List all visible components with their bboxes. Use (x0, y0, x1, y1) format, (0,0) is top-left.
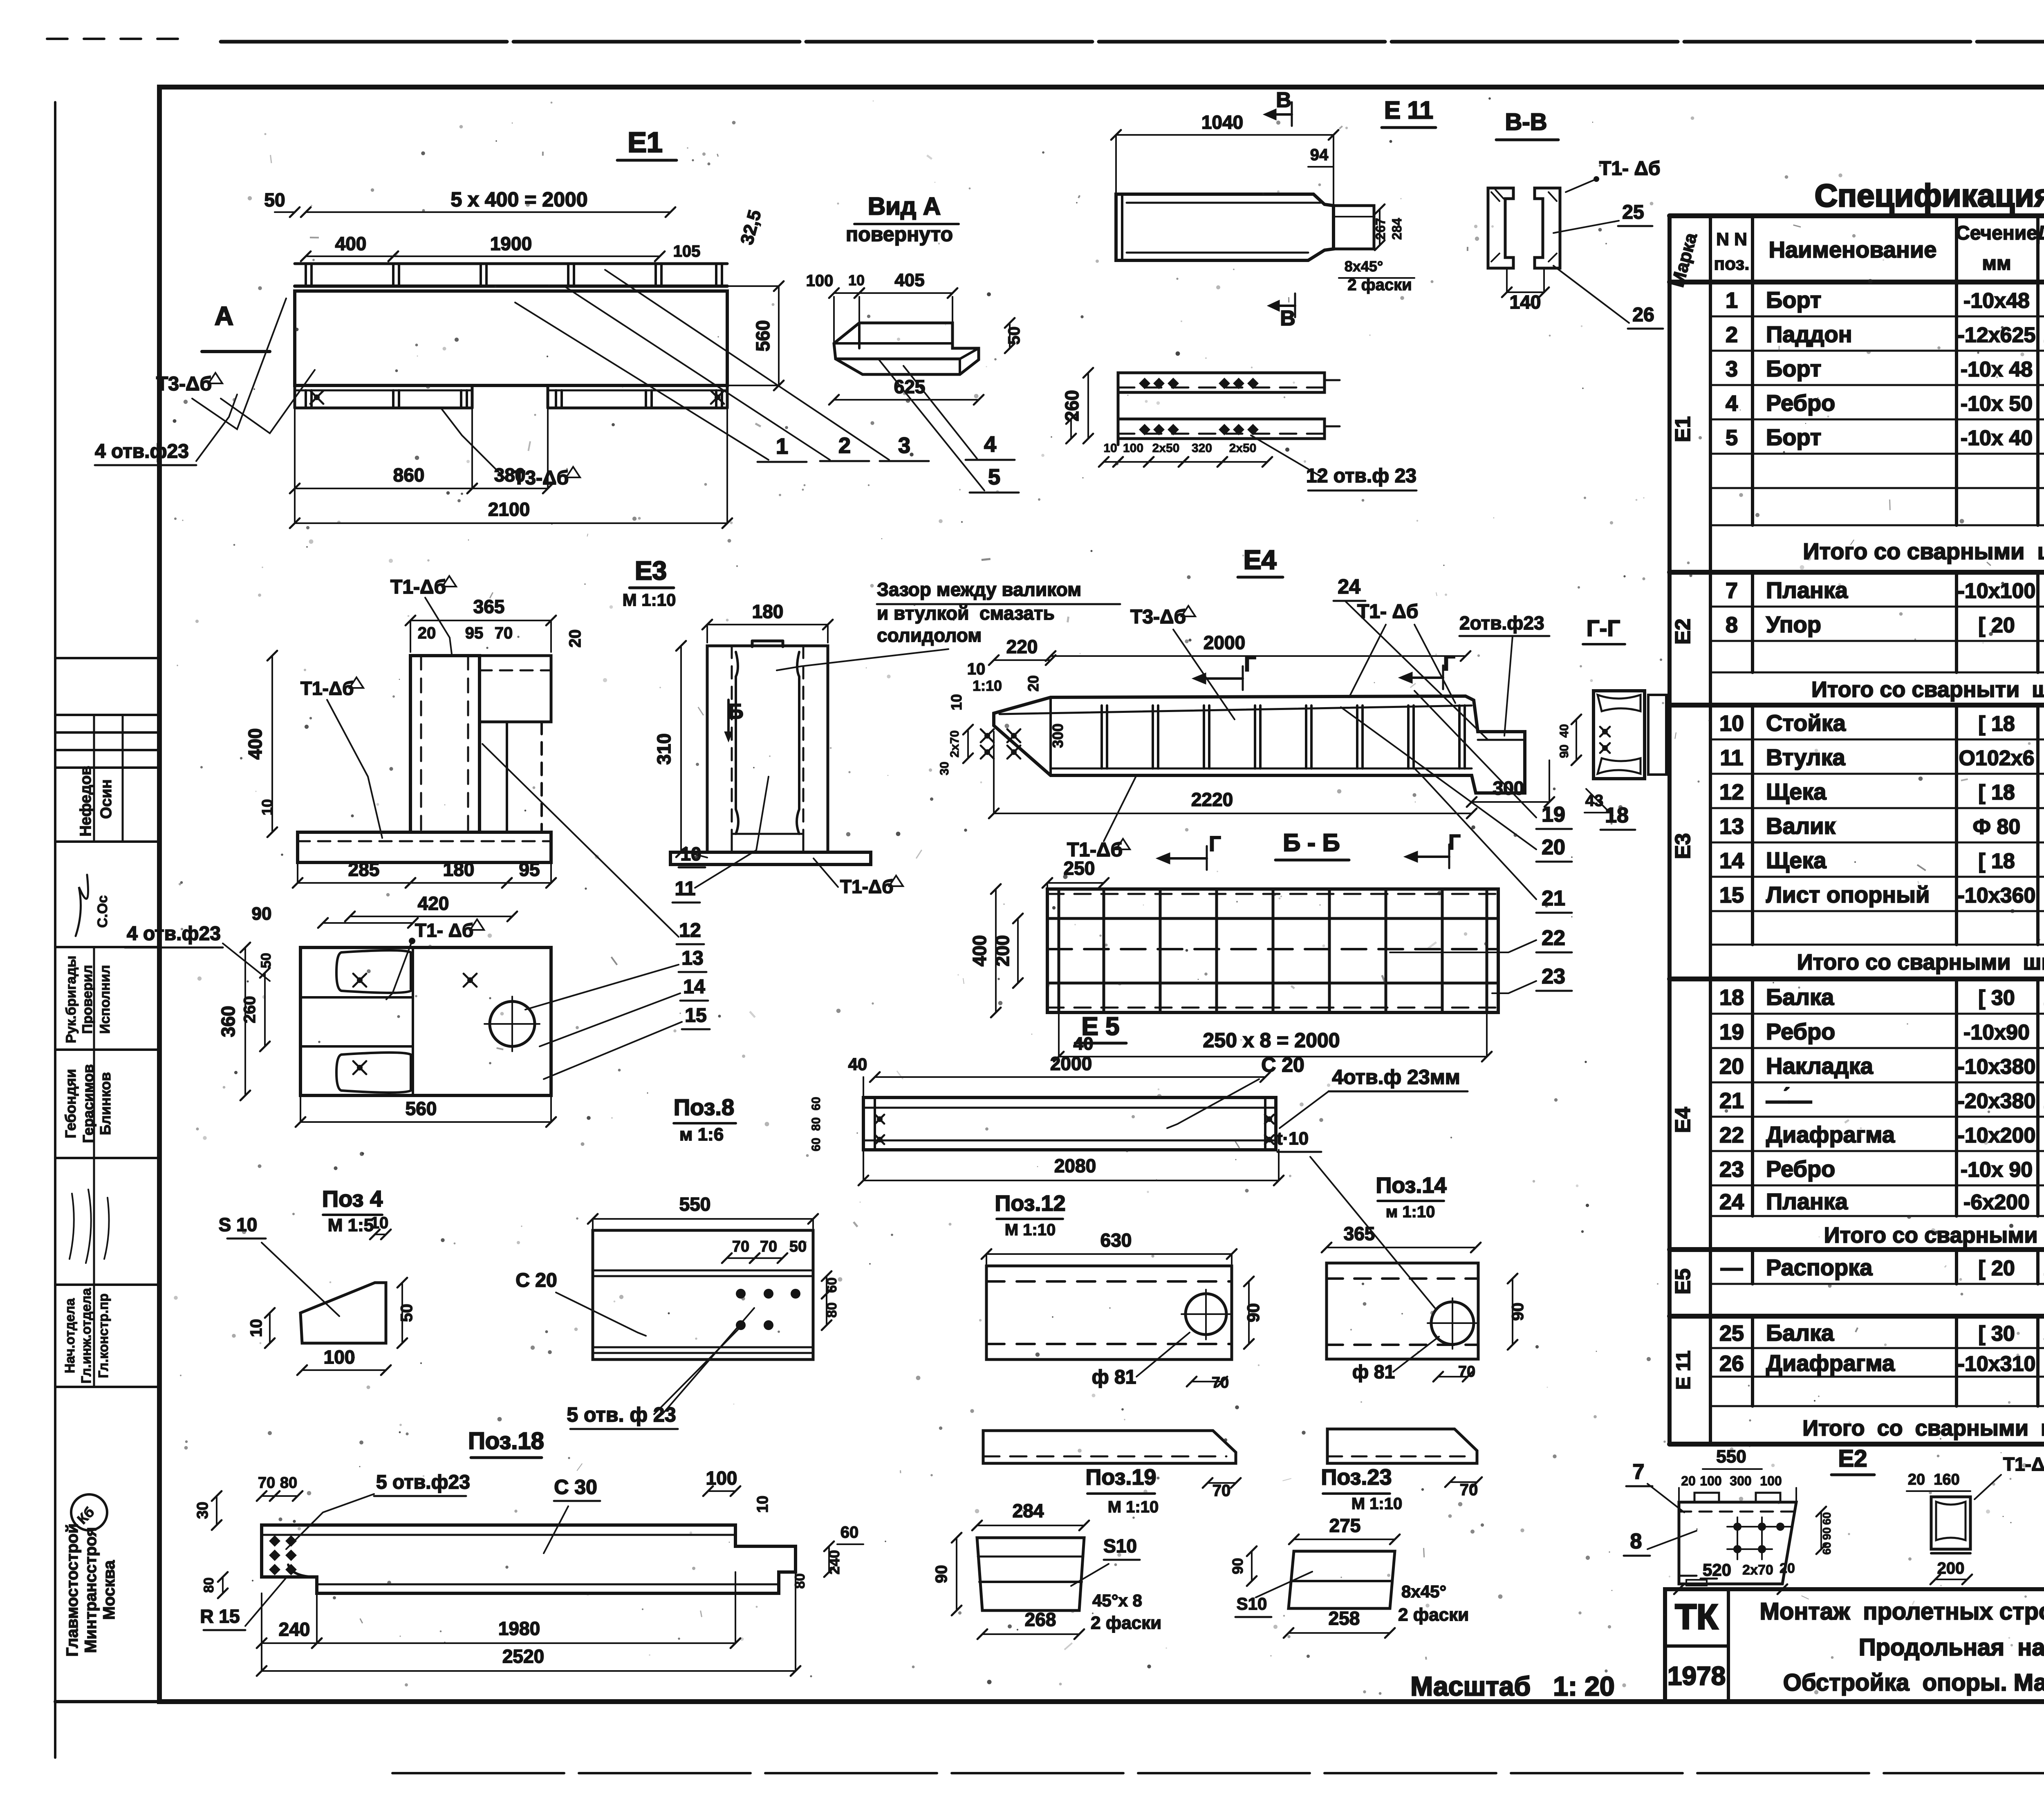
svg-text:60: 60 (1820, 1512, 1833, 1525)
E11 dimensions (1111, 88, 1414, 330)
svg-text:10: 10 (247, 1319, 265, 1337)
svg-text:43: 43 (1585, 792, 1604, 810)
section G-G drawing (1558, 691, 1666, 813)
weld label T1 E3 (390, 576, 456, 654)
svg-text:Лист опорный: Лист опорный (1766, 882, 1930, 907)
svg-text:2x50: 2x50 (1152, 441, 1180, 455)
svg-text:1900: 1900 (490, 233, 532, 254)
svg-text:365: 365 (1344, 1223, 1375, 1244)
svg-text:Е 11: Е 11 (1673, 1351, 1694, 1390)
svg-text:ф 81: ф 81 (1352, 1361, 1395, 1382)
part plate 560 with roller (300, 947, 551, 1095)
part view A sketch (834, 297, 979, 374)
weld label T1 E4 bottom (1067, 775, 1136, 861)
svg-text:7: 7 (1726, 578, 1738, 603)
svg-text:ТК: ТК (1675, 1597, 1718, 1637)
svg-text:284: 284 (1013, 1500, 1044, 1521)
svg-text:Диафрагма: Диафрагма (1766, 1350, 1895, 1376)
svg-text:5: 5 (1726, 426, 1738, 450)
stamp names 2 (62, 1064, 114, 1143)
svg-text:5 отв.ф23: 5 отв.ф23 (376, 1471, 470, 1493)
svg-text:10: 10 (967, 660, 986, 678)
svg-text:Е5: Е5 (1671, 1268, 1695, 1295)
svg-text:200: 200 (992, 935, 1013, 967)
svg-text:1040: 1040 (1201, 112, 1243, 133)
svg-text:21: 21 (1719, 1088, 1744, 1113)
svg-text:560: 560 (406, 1098, 437, 1119)
svg-text:Ф 80: Ф 80 (1973, 815, 2021, 839)
svg-text:Поз 4: Поз 4 (322, 1186, 383, 1212)
weld label T1 plate (386, 919, 484, 999)
svg-text:Зазор между валиком: Зазор между валиком (877, 579, 1081, 600)
svg-text:2отв.ф23: 2отв.ф23 (1459, 612, 1544, 634)
svg-text:100: 100 (806, 272, 834, 290)
svg-text:12: 12 (679, 920, 701, 941)
svg-text:50: 50 (1005, 327, 1023, 345)
svg-text:М 1:10: М 1:10 (1108, 1498, 1159, 1516)
part label E2 (1831, 1445, 1874, 1475)
E1 dimensions (264, 188, 784, 528)
svg-text:12: 12 (1719, 780, 1744, 804)
svg-text:2000: 2000 (1050, 1053, 1092, 1074)
svg-text:400: 400 (244, 728, 266, 760)
stamp org and logo (63, 1494, 118, 1657)
svg-text:Ребро: Ребро (1766, 1019, 1835, 1044)
svg-text:В: В (1280, 307, 1295, 330)
svg-text:Планка: Планка (1766, 577, 1848, 603)
svg-text:20: 20 (1780, 1561, 1795, 1576)
svg-text:100: 100 (706, 1467, 737, 1489)
svg-text:14: 14 (1719, 849, 1744, 873)
svg-text:40: 40 (848, 1055, 867, 1074)
spec rows E11 (1673, 1320, 2044, 1440)
svg-text:2220: 2220 (1191, 789, 1233, 810)
svg-text:-10x 40: -10x 40 (1961, 426, 2033, 450)
svg-text:Е 5: Е 5 (1081, 1012, 1119, 1041)
spec rows E1 (1671, 287, 2044, 564)
svg-text:12 отв.ф 23: 12 отв.ф 23 (1306, 465, 1416, 487)
svg-text:Наименование: Наименование (1769, 237, 1937, 262)
svg-text:-10x380: -10x380 (1958, 1055, 2036, 1079)
V-V labels (1502, 158, 1663, 329)
svg-text:Нефедов: Нефедов (77, 766, 94, 836)
svg-text:2x70: 2x70 (1742, 1562, 1773, 1578)
svg-text:Гебондяи: Гебондяи (62, 1069, 79, 1138)
svg-text:7: 7 (1633, 1460, 1645, 1484)
svg-text:Балка: Балка (1766, 984, 1834, 1010)
section label B-B grid (1275, 829, 1349, 860)
weld label T3 E4 (1130, 606, 1235, 719)
svg-text:-10x 50: -10x 50 (1961, 392, 2033, 416)
svg-text:40: 40 (1558, 724, 1571, 737)
svg-text:140: 140 (1510, 291, 1541, 313)
svg-text:Г: Г (1209, 832, 1221, 856)
Poz8 dimensions (588, 1194, 840, 1330)
svg-text:860: 860 (393, 464, 425, 486)
part label E11 (1382, 96, 1436, 128)
svg-text:300: 300 (1730, 1474, 1751, 1488)
svg-text:400: 400 (335, 233, 367, 254)
svg-text:1980: 1980 (498, 1618, 540, 1639)
svg-text:70: 70 (1212, 1374, 1229, 1391)
stamp signatures (76, 875, 110, 936)
svg-text:50: 50 (789, 1238, 807, 1255)
svg-text:поз.: поз. (1714, 254, 1750, 274)
svg-text:[ 18: [ 18 (1978, 712, 2015, 736)
svg-text:22: 22 (1719, 1123, 1744, 1147)
svg-text:Б: Б (728, 700, 743, 723)
svg-text:Щека: Щека (1766, 779, 1827, 804)
svg-text:-12x625: -12x625 (1958, 323, 2036, 347)
spacer (0, 0, 0, 0)
svg-text:Осин: Осин (98, 779, 115, 819)
spec table title (1815, 177, 2044, 213)
svg-text:625: 625 (894, 376, 926, 397)
svg-text:70: 70 (1460, 1481, 1478, 1499)
svg-text:Е4: Е4 (1244, 544, 1277, 575)
svg-text:20: 20 (1681, 1474, 1696, 1488)
svg-text:солидолом: солидолом (877, 625, 982, 646)
E5 dimensions (809, 1053, 1284, 1185)
B-B dimensions (969, 858, 1492, 1062)
part label E1 (617, 126, 677, 160)
part Poz19 trapezoid (977, 1538, 1084, 1610)
svg-text:Итого со сварныти швами:: Итого со сварныти швами: (1811, 677, 2044, 702)
svg-text:20: 20 (1025, 675, 1042, 692)
svg-text:60: 60 (824, 1277, 840, 1293)
E3 stojka dimensions (653, 601, 833, 857)
part Poz18 bar (262, 1525, 796, 1593)
svg-text:100: 100 (1700, 1474, 1721, 1488)
label Vid A (846, 193, 959, 246)
part label Poz14 (1376, 1173, 1447, 1221)
svg-text:80: 80 (201, 1577, 217, 1593)
part Poz12 plate (986, 1266, 1232, 1359)
svg-text:Проверил: Проверил (80, 965, 95, 1034)
svg-text:В-В: В-В (1505, 109, 1547, 135)
stamp signatures 2 (69, 1189, 109, 1263)
svg-text:15: 15 (1719, 883, 1744, 907)
svg-text:М 1:10: М 1:10 (1005, 1221, 1056, 1239)
blank bar item23 (1327, 1429, 1482, 1499)
svg-text:23: 23 (1542, 965, 1565, 988)
E2 upor dimensions (1674, 1447, 1833, 1594)
svg-text:и втулкой смазать: и втулкой смазать (877, 602, 1055, 624)
svg-text:Монтаж пролетных строений 45.: Монтаж пролетных строений 45.0и55.0м (1760, 1598, 2044, 1625)
svg-text:Ребро: Ребро (1766, 390, 1835, 416)
svg-text:Щека: Щека (1766, 847, 1827, 873)
svg-text:-10x 90: -10x 90 (1961, 1158, 2033, 1182)
part E1 bottom rib rows (295, 385, 727, 408)
svg-text:70: 70 (760, 1238, 777, 1255)
svg-text:повернуто: повернуто (846, 223, 953, 246)
label 4 holes f23mm (1280, 1066, 1468, 1128)
svg-text:Накладка: Накладка (1766, 1053, 1874, 1079)
svg-text:Гл.инж.отдела: Гл.инж.отдела (78, 1288, 94, 1384)
weld label T1 stojka (814, 858, 903, 897)
label C20 Poz8 (515, 1270, 646, 1336)
svg-text:18: 18 (1719, 985, 1744, 1010)
svg-text:275: 275 (1329, 1515, 1361, 1536)
svg-text:Балка: Балка (1766, 1320, 1834, 1346)
svg-text:30: 30 (938, 761, 951, 775)
svg-text:Упор: Упор (1766, 611, 1821, 637)
section mark B (724, 700, 744, 742)
svg-text:м 1:10: м 1:10 (1386, 1203, 1435, 1221)
svg-text:20: 20 (418, 624, 436, 642)
item callout 24 (1334, 575, 1488, 740)
part E3 support column (298, 656, 551, 862)
svg-text:Втулка: Втулка (1766, 744, 1846, 770)
svg-text:105: 105 (673, 242, 701, 260)
part E4 beam (981, 696, 1525, 793)
svg-text:Главмостострой: Главмостострой (63, 1523, 81, 1657)
stamp names Нефедов Осин (77, 766, 115, 836)
svg-text:2: 2 (838, 433, 851, 458)
svg-text:Нач.отдела: Нач.отдела (62, 1298, 77, 1373)
svg-text:Т3-Δб: Т3-Δб (1130, 606, 1186, 628)
svg-text:20: 20 (1908, 1471, 1925, 1488)
svg-text:М 1:10: М 1:10 (623, 590, 676, 609)
part E5 bar (863, 1097, 1276, 1150)
svg-text:-6x200: -6x200 (1963, 1191, 2030, 1214)
svg-text:Т1- Δб: Т1- Δб (1599, 158, 1660, 179)
svg-text:80: 80 (824, 1302, 840, 1318)
part E2 tube section (1907, 1471, 1972, 1584)
svg-text:250 x 8 = 2000: 250 x 8 = 2000 (1203, 1029, 1340, 1052)
svg-text:268: 268 (1025, 1609, 1056, 1630)
svg-text:24: 24 (1338, 575, 1360, 598)
svg-text:26: 26 (1632, 304, 1654, 326)
svg-text:2 фаски: 2 фаски (1398, 1605, 1469, 1625)
svg-text:2x70: 2x70 (948, 730, 961, 758)
svg-text:8: 8 (1726, 613, 1738, 637)
svg-text:Рук.бригады: Рук.бригады (63, 956, 79, 1043)
svg-text:2000: 2000 (1204, 632, 1245, 653)
part label E4 (1238, 544, 1283, 577)
svg-text:80: 80 (280, 1474, 297, 1492)
svg-text:10: 10 (754, 1496, 771, 1513)
svg-text:С 30: С 30 (554, 1476, 597, 1498)
svg-text:520: 520 (1703, 1560, 1731, 1579)
svg-text:1: 1 (1726, 288, 1738, 313)
svg-text:S 10: S 10 (219, 1214, 258, 1235)
stamp roles 2 (62, 1288, 111, 1384)
E4 dimensions (938, 632, 1554, 818)
svg-text:24: 24 (1719, 1190, 1744, 1214)
item callouts 7 8 (1624, 1460, 1697, 1556)
weld label T3-b left (156, 298, 315, 433)
scale note (1410, 1671, 1614, 1701)
svg-text:3: 3 (1726, 357, 1738, 381)
svg-text:Минтрансстроя: Минтрансстроя (82, 1527, 100, 1653)
svg-text:10: 10 (948, 694, 965, 710)
label 12 holes f23 (1251, 435, 1416, 490)
svg-text:80: 80 (792, 1573, 808, 1589)
svg-text:М 1:10: М 1:10 (1351, 1495, 1403, 1513)
svg-text:Поз.14: Поз.14 (1376, 1173, 1447, 1198)
svg-text:[ 30: [ 30 (1978, 986, 2015, 1010)
svg-text:Блинков: Блинков (97, 1072, 114, 1135)
svg-text:70: 70 (1458, 1363, 1475, 1380)
svg-text:Итого со сварными швами:: Итого со сварными швами: (1803, 538, 2044, 564)
spec table grid (1670, 216, 2044, 1444)
svg-text:50: 50 (398, 1304, 416, 1322)
part label Poz23 (1321, 1465, 1403, 1513)
weld label T1 E4 (1349, 601, 1455, 703)
svg-text:20: 20 (566, 629, 584, 648)
svg-text:94: 94 (1310, 146, 1329, 164)
svg-text:70: 70 (495, 624, 513, 642)
svg-text:С.Ос: С.Ос (95, 895, 110, 927)
svg-text:95: 95 (465, 624, 484, 642)
svg-text:М 1:5: М 1:5 (328, 1215, 374, 1235)
svg-text:550: 550 (679, 1194, 711, 1215)
svg-text:Г: Г (1443, 652, 1455, 675)
svg-text:Т1- Δб: Т1- Δб (415, 920, 473, 941)
label C20 E5 (1167, 1053, 1304, 1128)
svg-text:10: 10 (1719, 711, 1744, 736)
Poz19 dimensions (932, 1500, 1161, 1639)
svg-text:O102x6: O102x6 (1959, 746, 2034, 770)
svg-text:20: 20 (1542, 835, 1565, 859)
svg-text:50: 50 (264, 189, 285, 211)
part label Poz12 (995, 1191, 1066, 1239)
svg-text:С 20: С 20 (1261, 1053, 1304, 1076)
svg-text:18: 18 (1605, 804, 1629, 827)
svg-text:Е1: Е1 (628, 126, 663, 158)
svg-text:Герасимов: Герасимов (80, 1064, 96, 1143)
label 5 holes f23 Poz8 (567, 1308, 754, 1429)
svg-text:Спецификация металла: Спецификация металла (1815, 177, 2044, 213)
svg-text:11: 11 (675, 878, 696, 900)
svg-text:Г: Г (1244, 652, 1256, 676)
Poz12 dimensions (982, 1230, 1263, 1391)
svg-text:С 20: С 20 (515, 1270, 557, 1291)
svg-text:Е4: Е4 (1671, 1107, 1695, 1133)
plate 560 dimensions (217, 893, 556, 1127)
svg-text:N N: N N (1716, 229, 1747, 249)
svg-text:90: 90 (1244, 1303, 1263, 1322)
svg-text:8x45°: 8x45° (1401, 1582, 1446, 1601)
svg-text:Распорка: Распорка (1766, 1254, 1873, 1280)
svg-text:[ 20: [ 20 (1978, 614, 2015, 637)
part E1 top rib row (295, 264, 727, 291)
svg-text:-10x48: -10x48 (1963, 289, 2030, 313)
svg-text:4: 4 (984, 432, 996, 457)
spec rows E3 (1671, 710, 2044, 974)
svg-text:19: 19 (1719, 1020, 1744, 1044)
svg-text:630: 630 (1100, 1230, 1132, 1251)
svg-text:240: 240 (279, 1619, 310, 1640)
svg-text:Т1-Δб: Т1-Δб (840, 876, 893, 897)
svg-text:Планка: Планка (1766, 1189, 1848, 1214)
svg-text:Паддон: Паддон (1766, 321, 1852, 347)
section label V-V (1496, 109, 1558, 140)
svg-text:4 отв.ф23: 4 отв.ф23 (127, 923, 221, 945)
weld label T1 E3 base (300, 677, 382, 838)
item callout 18 (1586, 789, 1635, 830)
svg-text:—́—: —́— (1766, 1087, 1812, 1113)
svg-text:1: 1 (776, 434, 788, 459)
svg-text:250: 250 (1064, 858, 1095, 879)
blank bar item19 (983, 1431, 1241, 1500)
svg-text:60: 60 (840, 1523, 859, 1541)
svg-text:95: 95 (519, 859, 540, 880)
svg-text:Поз.12: Поз.12 (995, 1191, 1066, 1216)
svg-text:32,5: 32,5 (737, 208, 765, 247)
svg-text:22: 22 (1542, 926, 1565, 950)
svg-text:-20x380: -20x380 (1958, 1089, 2036, 1113)
svg-text:19: 19 (1542, 803, 1565, 826)
part E2 upor plate (1679, 1493, 1796, 1586)
part label Poz18 (468, 1428, 544, 1458)
label 2 holes f23 (1459, 612, 1549, 736)
svg-text:Вид А: Вид А (868, 193, 941, 220)
svg-text:Диафрагма: Диафрагма (1766, 1122, 1895, 1147)
svg-text:[ 18: [ 18 (1978, 781, 2015, 804)
svg-text:t·10: t·10 (1277, 1129, 1309, 1149)
part Poz8 plate (593, 1230, 813, 1359)
svg-text:15: 15 (685, 1005, 706, 1026)
svg-text:180: 180 (443, 859, 475, 880)
svg-text:1978: 1978 (1667, 1661, 1726, 1691)
svg-text:25: 25 (1622, 202, 1644, 223)
svg-text:10: 10 (680, 843, 701, 865)
svg-text:Т3-Δб: Т3-Δб (513, 467, 569, 489)
svg-text:60: 60 (809, 1097, 823, 1110)
svg-text:3: 3 (898, 433, 910, 458)
part label Poz8 (674, 1094, 736, 1144)
svg-text:Поз.8: Поз.8 (674, 1094, 734, 1120)
svg-text:5: 5 (988, 465, 1000, 489)
svg-text:10: 10 (259, 799, 276, 815)
svg-text:4 отв.ф23: 4 отв.ф23 (95, 441, 189, 462)
view A dimensions (806, 270, 1023, 405)
svg-text:Поз.23: Поз.23 (1321, 1465, 1392, 1489)
svg-text:[ 18: [ 18 (1978, 849, 2015, 873)
svg-text:80: 80 (809, 1117, 823, 1131)
part label E3 (623, 556, 676, 609)
svg-text:Г: Г (1448, 831, 1460, 854)
svg-text:2100: 2100 (488, 499, 530, 520)
svg-text:Продольная надвижка: Продольная надвижка (1859, 1634, 2044, 1661)
view arrow A (202, 301, 270, 352)
svg-text:1:10: 1:10 (973, 677, 1002, 694)
svg-text:90: 90 (1558, 744, 1571, 758)
svg-text:-10x100: -10x100 (1958, 579, 2036, 603)
svg-text:Исполнил: Исполнил (97, 965, 113, 1034)
svg-text:10: 10 (848, 272, 865, 289)
svg-text:200: 200 (1937, 1559, 1965, 1577)
title block text (1667, 1546, 2044, 1699)
section marks G bottom (1156, 831, 1461, 870)
svg-text:Т1- Δб: Т1- Δб (1357, 601, 1418, 623)
svg-text:180: 180 (752, 601, 784, 622)
svg-text:360: 360 (217, 1006, 239, 1037)
svg-text:90: 90 (1229, 1558, 1246, 1574)
svg-text:Поз.18: Поз.18 (468, 1428, 544, 1454)
svg-text:мм: мм (1982, 253, 2011, 274)
svg-text:Т1-Δб: Т1-Δб (300, 678, 354, 699)
spec rows E5 (1671, 1254, 2044, 1314)
svg-text:Г-Г: Г-Г (1587, 615, 1620, 641)
svg-text:8x45°: 8x45° (1345, 258, 1383, 275)
svg-text:Борт: Борт (1766, 287, 1821, 313)
svg-text:Обстройка опоры. Марки. Дета: Обстройка опоры. Марки. Детали. (1783, 1669, 2044, 1696)
part label Poz4 (322, 1186, 383, 1235)
svg-text:2x50: 2x50 (1229, 441, 1257, 455)
